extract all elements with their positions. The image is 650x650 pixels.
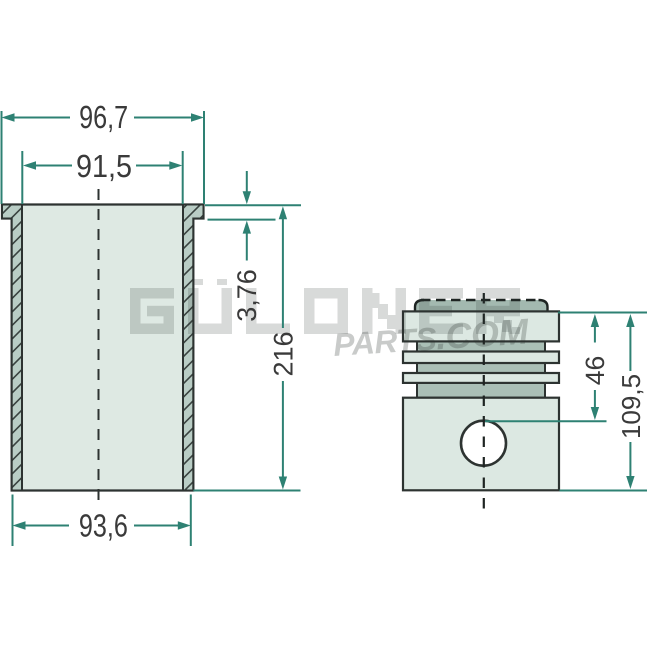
piston ring land 1 — [403, 352, 559, 364]
dimension 96,7 — [2, 111, 205, 204]
dimension 93,6 — [13, 495, 191, 547]
svg-text:216: 216 — [268, 331, 298, 376]
svg-text:3,76: 3,76 — [232, 269, 262, 322]
liner right wall hatched section — [183, 205, 204, 491]
dimension 109,5 — [626, 314, 634, 489]
skirt bottom extension line — [560, 490, 648, 492]
E — [419, 288, 463, 299]
piston dome — [415, 300, 548, 312]
R — [476, 288, 520, 299]
L — [246, 288, 257, 334]
svg-text:93,6: 93,6 — [79, 508, 128, 544]
svg-text:91,5: 91,5 — [76, 148, 132, 184]
piston ring groove 2 — [417, 363, 545, 373]
D — [304, 288, 348, 299]
piston ring land 2 — [403, 373, 559, 383]
svg-text:109,5: 109,5 — [616, 374, 646, 439]
piston pin bore — [461, 421, 506, 466]
dimension 46 — [591, 314, 599, 420]
cylinder liner cross-section body — [2, 205, 204, 491]
piston ring groove 1 — [417, 341, 545, 351]
U dots — [193, 279, 203, 285]
liner centerline — [98, 189, 100, 509]
G — [130, 288, 174, 299]
crown top extension line — [558, 312, 647, 314]
dimension 91,5 — [22, 151, 182, 204]
piston crown land — [403, 311, 559, 341]
piston skirt — [403, 398, 559, 491]
svg-text:96,7: 96,7 — [79, 99, 128, 135]
dimension 216 — [193, 206, 300, 490]
pin top leader line — [485, 420, 607, 422]
piston centerline — [483, 293, 485, 515]
liner left wall hatched section — [2, 205, 22, 491]
dimension 3,76 — [205, 171, 301, 261]
piston oil ring groove — [417, 383, 545, 398]
N — [362, 288, 373, 334]
watermark GULDNER — [130, 279, 520, 334]
svg-text:46: 46 — [580, 356, 610, 385]
